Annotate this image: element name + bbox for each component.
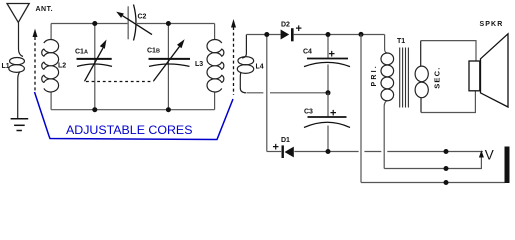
svg-text:ANT.: ANT. <box>36 6 54 13</box>
svg-text:ADJUSTABLE CORES: ADJUSTABLE CORES <box>66 123 192 137</box>
D1 rail (line1) <box>267 151 483 153</box>
transformer T1 primary coil <box>381 53 394 101</box>
junction dot top rail at C4 <box>326 32 331 37</box>
wire vertical from top rail to D1 rail <box>266 35 268 152</box>
speaker SPKR <box>469 34 508 107</box>
svg-text:C4: C4 <box>303 49 312 56</box>
junction dot line1 x446 <box>444 149 449 154</box>
gang line between C1A and C1B <box>86 81 154 83</box>
wire secondary bottom to speaker <box>421 91 475 112</box>
svg-text:D2: D2 <box>281 22 290 29</box>
adjustable core arrow 2 (between L3 and L4) <box>231 19 236 95</box>
svg-text:L3: L3 <box>195 61 203 68</box>
antenna <box>7 4 29 23</box>
line2 (primary bottom to V arrow) <box>384 157 481 169</box>
svg-text:+: + <box>329 49 335 61</box>
svg-text:D1: D1 <box>281 137 290 144</box>
svg-text:T1: T1 <box>397 38 405 45</box>
arrow V <box>479 150 484 157</box>
junction dot tank top right <box>166 21 171 26</box>
tank circuit wires (L2/C1A/C2/C1B/L3 loop) <box>51 24 215 110</box>
junction dot tank top left <box>92 21 97 26</box>
svg-text:C3: C3 <box>304 109 313 116</box>
diode D1 <box>282 145 294 158</box>
blue callout bracket <box>35 92 234 140</box>
svg-text:C2: C2 <box>138 14 147 21</box>
svg-text:+: + <box>296 23 302 35</box>
svg-text:V: V <box>485 147 494 162</box>
svg-text:SPKR: SPKR <box>480 21 504 28</box>
junction dot tank bottom left <box>92 107 97 112</box>
svg-text:L2: L2 <box>58 63 66 70</box>
svg-text:PRI.: PRI. <box>371 64 378 86</box>
inductor L2 <box>42 39 59 92</box>
inductor L1 <box>9 22 25 118</box>
capacitor C3 <box>304 93 350 152</box>
inductor L4 <box>237 35 253 93</box>
junction dot line3 x446 <box>444 180 449 185</box>
ground <box>11 119 29 131</box>
variable capacitor C1A <box>77 24 113 110</box>
svg-text:+: + <box>273 142 279 154</box>
middle rail (L4 bottom to C4/C3 junction) <box>246 92 263 94</box>
wire vertical x361 (top rail to bottom rail) <box>360 34 362 182</box>
svg-text:+: + <box>330 108 336 120</box>
transformer T1 core <box>400 48 409 108</box>
capacitor C4 <box>304 35 350 93</box>
inductor L3 <box>207 40 224 93</box>
svg-text:C1A: C1A <box>75 49 88 56</box>
bottom rail (line3) <box>361 182 505 184</box>
svg-text:SEC.: SEC. <box>433 66 442 88</box>
junction dot top rail at x267 <box>264 32 269 37</box>
wire middle rail right part <box>270 92 328 94</box>
top rail (L4 to transformer) <box>246 34 384 36</box>
variable capacitor C1B <box>149 24 191 110</box>
junction dot D1 rail at C3 <box>326 149 331 154</box>
diode D2 <box>281 28 294 41</box>
variable capacitor C2 <box>116 5 152 41</box>
adjustable core arrow 1 (between L1 and L2) <box>33 29 38 93</box>
transformer T1 secondary coil <box>415 41 428 113</box>
svg-text:L1: L1 <box>2 63 10 70</box>
junction dot middle rail at C4/C3 <box>326 90 331 95</box>
junction dot top rail at x361 <box>359 32 364 37</box>
junction dot tank bottom right <box>166 107 171 112</box>
transformer T1 primary wires <box>384 35 387 169</box>
svg-text:L4: L4 <box>256 64 264 71</box>
battery bar <box>505 147 510 184</box>
wire secondary top to speaker <box>421 41 476 61</box>
junction dot line2 x446 <box>444 166 449 171</box>
svg-text:C1B: C1B <box>147 48 160 55</box>
